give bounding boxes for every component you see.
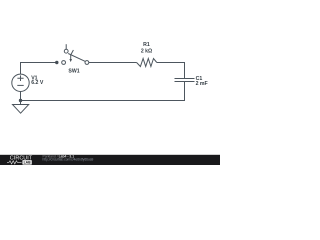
switch SW1 pole contact circle [85,61,89,65]
switch SW1 upper throw contact circle [64,49,68,53]
voltage source V1 circle [12,74,29,91]
svg-text:SW1: SW1 [68,68,79,74]
wire R1 to top-right corner and down to capacitor C1 [157,62,185,78]
wire V1 top lead up to top-left corner [20,62,22,74]
voltage source V1 minus sign [17,84,23,86]
footer black watermark bar [0,155,220,165]
resistor R1 zigzag body [137,59,157,67]
capacitor C1 bottom plate [175,81,195,83]
switch SW1 actuation arrow [71,50,74,59]
wire top rail from corner to SW1 left pin [20,62,57,64]
svg-text:LAB: LAB [24,161,32,165]
logo resistor zigzag [7,161,22,164]
wire C1 bottom lead down to bottom rail [184,82,186,102]
voltage source V1 plus sign [17,75,23,81]
switch SW1 lever arm [68,54,85,62]
svg-text:6.2 V: 6.2 V [31,80,44,86]
switch SW1 upper throw stub wire [65,44,67,49]
capacitor C1 top plate [175,78,195,80]
switch SW1 left throw contact circle [62,61,66,65]
ground triangle symbol [13,105,29,114]
node ground junction dot [19,99,22,102]
svg-text:2 kΩ: 2 kΩ [141,49,152,55]
svg-text:http://circuitlab.com/c/4e6rdf: http://circuitlab.com/c/4e6rdfy66ua9 [43,158,94,162]
node SW1 left pin junction dot [55,61,58,64]
logo LAB box [22,160,31,165]
svg-text:R1: R1 [143,42,150,48]
ground stub wire [20,101,22,105]
wire V1 bottom lead to ground node [20,91,22,101]
wire bottom rail from C1 to V1 [20,100,185,102]
wire SW1 pole to resistor R1 [89,62,137,64]
svg-text:2 mF: 2 mF [196,81,208,87]
